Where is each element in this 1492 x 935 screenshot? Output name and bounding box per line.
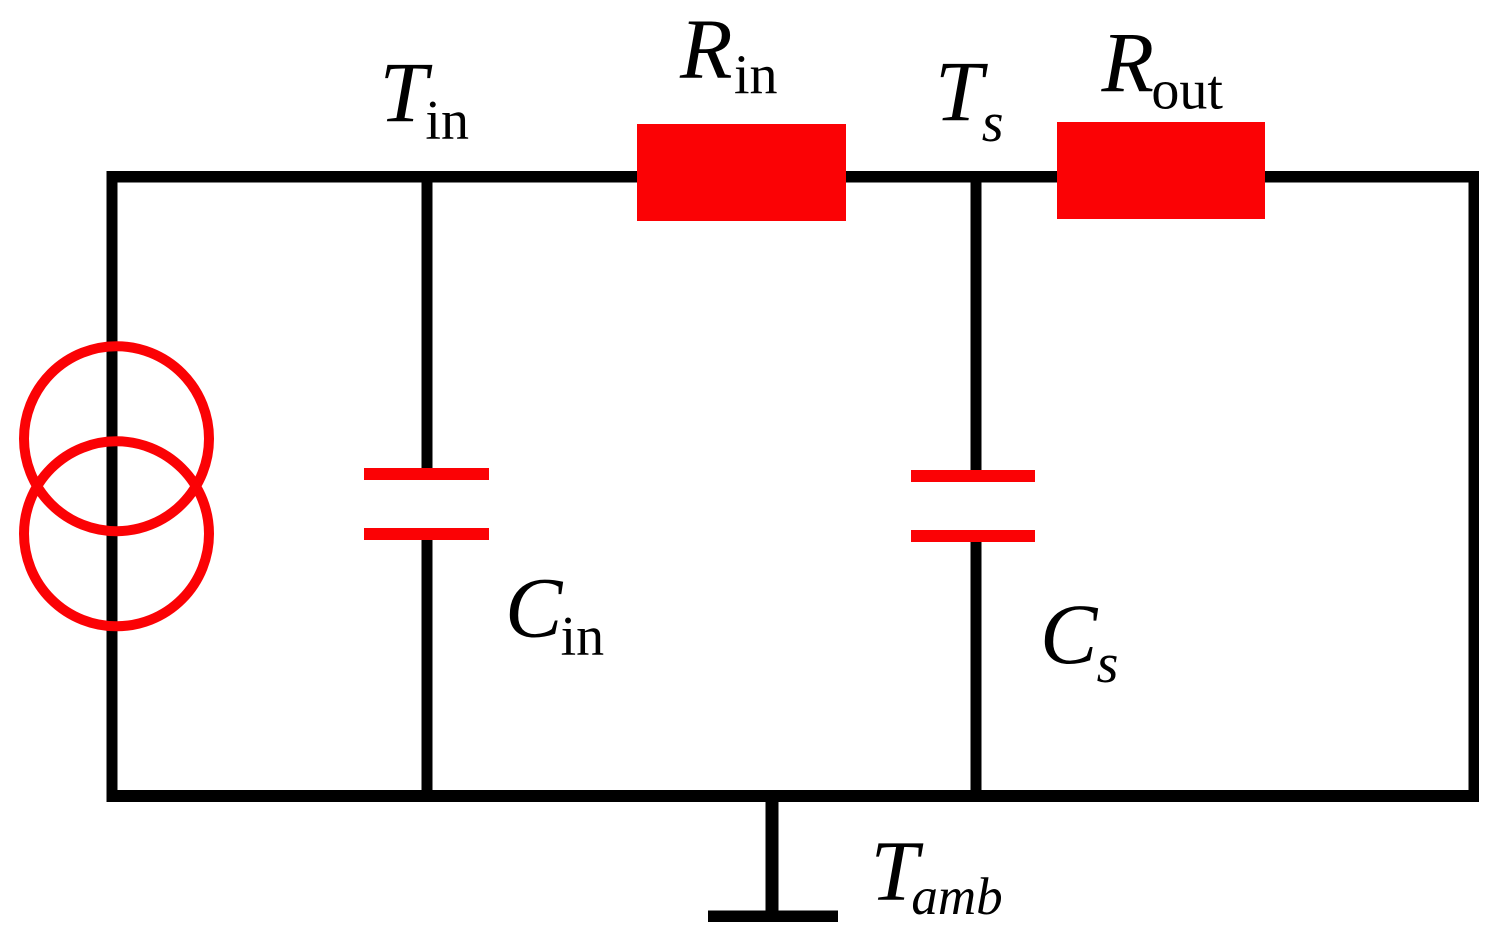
wire top horizontal (Tin node rail) <box>107 171 1480 183</box>
resistor Rin body <box>637 124 846 221</box>
svg-text:in: in <box>734 45 778 107</box>
current source circle lower <box>24 441 209 626</box>
svg-text:in: in <box>561 606 605 668</box>
wire Ts branch lower segment <box>971 535 982 796</box>
capacitor Cin top plate <box>364 468 489 480</box>
wire Ts branch upper segment <box>971 171 982 475</box>
svg-text:R: R <box>1101 14 1155 110</box>
svg-text:T: T <box>935 43 988 139</box>
svg-text:in: in <box>425 90 469 152</box>
wire bottom horizontal (ambient rail) <box>107 790 1480 802</box>
resistor Rout body <box>1057 122 1265 219</box>
wire left vertical <box>107 171 118 802</box>
current source circle upper <box>24 346 209 531</box>
svg-text:R: R <box>679 1 733 97</box>
wire right vertical <box>1469 171 1480 802</box>
svg-text:s: s <box>982 92 1004 154</box>
ground stem <box>766 790 779 916</box>
svg-text:out: out <box>1151 59 1223 121</box>
capacitor Cs bottom plate <box>911 530 1035 542</box>
wire Tin branch upper segment <box>422 171 433 474</box>
ground bar <box>708 911 838 923</box>
wire Tin branch lower segment <box>422 534 433 796</box>
capacitor Cin bottom plate <box>364 528 489 540</box>
svg-text:C: C <box>1040 586 1099 682</box>
svg-text:amb: amb <box>911 868 1002 926</box>
svg-text:C: C <box>505 559 564 655</box>
svg-text:s: s <box>1097 633 1119 695</box>
capacitor Cs top plate <box>911 470 1035 482</box>
